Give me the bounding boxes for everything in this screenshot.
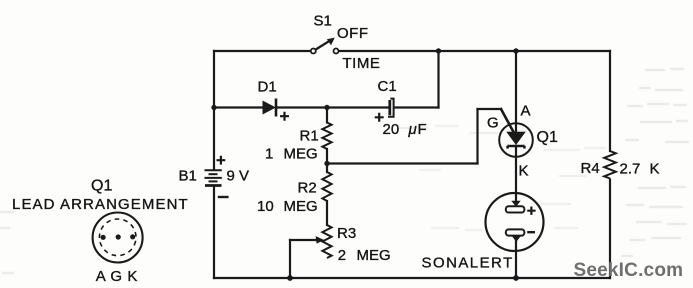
SONALERT buzzer [422,193,544,272]
svg-text:SONALERT: SONALERT [422,255,514,272]
svg-text:R3: R3 [337,225,356,242]
svg-text:MEG: MEG [357,247,391,264]
wire second rail D1-to-C1 segment [277,106,388,108]
svg-text:MEG: MEG [284,145,318,162]
wire SCR anode drop from top rail [515,51,517,133]
wire left vertical lower (B1 minus lead) [213,187,215,279]
svg-text:SeekIC.com: SeekIC.com [574,260,684,281]
wire gate top horizontal [478,108,502,110]
svg-text:A G K: A G K [96,268,138,285]
diode D1 [258,79,290,121]
extra faint bleed-through, decorative [399,126,605,230]
svg-text:S1: S1 [314,13,332,30]
SCR Q1 [487,103,558,180]
svg-text:20: 20 [383,121,400,138]
svg-text:D1: D1 [258,79,277,96]
resistor R1 [265,123,332,163]
battery B1 [205,156,229,197]
wire right vertical lower (R4 bottom lead) [609,180,611,279]
svg-text:F: F [418,121,427,138]
svg-text:Q1: Q1 [91,178,112,195]
wire gate diagonal into SCR [501,109,514,132]
svg-text:2.7: 2.7 [620,161,641,178]
wire right vertical upper (R4 top lead) [609,51,611,151]
wire top rail right segment [339,50,611,52]
wire SCR cathode to sonalert [515,146,517,202]
capacitor C1 [375,78,427,138]
svg-text:OFF: OFF [337,25,369,42]
wire R1 top lead [326,108,328,123]
resistor R2 [257,172,332,215]
wire gate riser [476,109,478,164]
svg-text:B1: B1 [179,167,197,184]
junction dot left vertical at second rail [211,105,216,110]
svg-text:9 V: 9 V [227,168,250,185]
svg-text:2: 2 [338,247,346,264]
junction dot R1/R2 node [324,161,329,166]
junction dot sonalert at bottom rail [513,275,519,281]
svg-text:R2: R2 [298,180,317,197]
wire second rail D1 anode segment [214,106,263,108]
svg-text:C1: C1 [378,78,397,95]
junction dot second rail at R1 [324,105,329,110]
potentiometer R3 [316,225,391,264]
svg-text:K: K [519,163,529,180]
wire bottom rail [214,277,610,279]
wire R3 wiper drop to bottom rail [289,240,291,278]
Q1 lead arrangement detail [12,178,189,286]
svg-text:TIME: TIME [343,55,381,72]
svg-text:1: 1 [265,145,273,162]
wire second rail C1-to-riser segment [395,106,439,108]
wire R3 wiper horizontal [290,239,317,241]
svg-text:10: 10 [257,198,274,215]
junction dot top rail at SCR anode [513,48,518,53]
wire R1 bottom to node [326,149,328,172]
svg-text:R1: R1 [300,127,319,144]
svg-text:A: A [521,103,531,120]
wire gate horizontal from R1/R2 node [327,162,478,164]
svg-text:MEG: MEG [284,198,318,215]
svg-text:LEAD ARRANGEMENT: LEAD ARRANGEMENT [12,196,189,213]
wire left vertical upper (B1 plus lead) [213,51,215,169]
wire top rail left segment [214,50,311,52]
junction dot top rail at C1 riser [436,48,441,53]
svg-text:G: G [487,115,499,132]
svg-text:Q1: Q1 [537,129,558,146]
wire sonalert bottom lead [515,237,517,278]
svg-text:K: K [650,161,660,178]
svg-text:μ: μ [408,121,417,138]
wire R2 bottom to R3 top [326,201,328,225]
svg-text:R4: R4 [581,160,600,177]
resistor R4 [581,151,660,179]
faint scan bleed-through noise, decorative [1,69,688,273]
junction dot wiper at bottom rail [287,275,293,281]
switch S1 [311,13,381,73]
wire C1 riser to top rail [437,51,439,108]
